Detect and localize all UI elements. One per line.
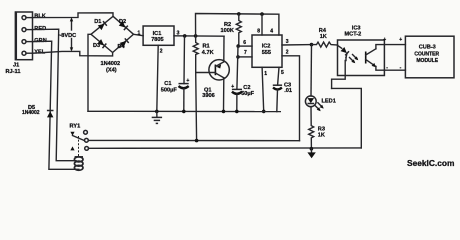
wire 555 pin 6 (238, 45, 252, 47)
svg-text:CUB-3: CUB-3 (419, 45, 436, 51)
capacitor C1 500uF (179, 36, 189, 112)
svg-text:LED1: LED1 (322, 99, 336, 105)
node 555 pin1 at rail (262, 110, 266, 114)
connector J1 RJ-11 (15, 12, 32, 60)
wire MCT-2 emitter to CUB-3 (384, 69, 405, 71)
label ~8VDC with arrows (58, 17, 76, 51)
wire +5V rail up and over to 555 pin 4 (196, 14, 279, 36)
node IC1 pin2 at rail (155, 110, 159, 114)
svg-text:COUNTER: COUNTER (414, 51, 439, 57)
svg-text:(X4): (X4) (106, 67, 117, 73)
wire 555 pin 7 (238, 56, 252, 58)
svg-text:~8VDC: ~8VDC (58, 33, 76, 39)
transistor Q1 3906 (196, 36, 230, 111)
wire 555 pin 2 down to relay wire (282, 56, 300, 141)
svg-text:+: + (383, 37, 386, 43)
LED LED1 (305, 96, 323, 111)
wire LED1 chain vertical (310, 45, 313, 96)
wire bridge plus to IC1 pin 1 (134, 34, 144, 35)
wire MCT-2 LED cathode return (332, 58, 346, 89)
svg-text:J1: J1 (13, 62, 19, 68)
svg-text:1K: 1K (318, 133, 325, 139)
svg-text:4.7K: 4.7K (202, 50, 214, 56)
svg-text:7805: 7805 (151, 37, 163, 43)
wire GRN down through D5 to coil bottom (33, 41, 79, 169)
node 555 pin7 junction (236, 55, 240, 59)
svg-text:RJ-11: RJ-11 (6, 69, 21, 75)
resistor R1 4.7K (193, 36, 198, 73)
counter module CUB-3 (405, 36, 454, 78)
wire YEL to bridge bottom (33, 51, 113, 56)
svg-text:8: 8 (257, 29, 260, 35)
svg-text:5: 5 (281, 70, 284, 76)
diode D4 (120, 38, 129, 47)
resistor R2 100K (236, 14, 241, 45)
wire RED down to relay coil (33, 29, 77, 161)
node 555 pin 8 top (260, 12, 264, 16)
node 555 pin6 junction (236, 44, 240, 48)
resistor R3 1K (309, 107, 314, 149)
ground rail (88, 110, 280, 112)
diode D1 (98, 21, 107, 30)
wire MCT-2 collector to CUB-3 (384, 44, 405, 46)
diode D3 (97, 39, 106, 48)
svg-text:D3: D3 (93, 43, 100, 49)
wire bridge minus down to ground rail (88, 34, 91, 111)
wire LED1 node to emitter ground corner (332, 88, 362, 147)
svg-text:1K: 1K (320, 34, 327, 40)
node R2 top (237, 12, 241, 16)
svg-text:1: 1 (138, 30, 141, 36)
timer IC2 555 (252, 35, 282, 67)
node base chain at relay wire (195, 139, 199, 143)
svg-text:R1: R1 (203, 44, 210, 50)
wire IC1 pin 2 down to ground rail (157, 45, 158, 111)
svg-text:1N4002: 1N4002 (22, 110, 40, 116)
node C2 bottom at rail (235, 110, 239, 114)
svg-text:2: 2 (160, 49, 163, 55)
ground symbol under IC1 pin 2 (152, 111, 162, 123)
svg-text:1: 1 (264, 71, 267, 77)
svg-text:+: + (186, 78, 189, 84)
svg-text:IC2: IC2 (262, 43, 271, 49)
svg-text:.01: .01 (284, 88, 292, 94)
node R1 top / rail corner (194, 34, 198, 38)
diode D5 1N4002 (47, 111, 54, 118)
voltage regulator IC1 7805 (143, 26, 174, 45)
optocoupler IC3 MCT-2 (338, 40, 385, 76)
wire relay lower contact ground wire (89, 147, 362, 149)
node 555 pin3 / R4 / LED1 junction (310, 43, 314, 47)
svg-text:7: 7 (244, 50, 247, 56)
svg-text:+: + (231, 84, 234, 90)
diode D2 (119, 21, 128, 30)
svg-text:1N4002: 1N4002 (101, 61, 121, 67)
svg-text:2: 2 (286, 49, 289, 55)
svg-text:D4: D4 (118, 44, 126, 50)
svg-text:D2: D2 (119, 19, 126, 25)
wire 555 pin 3 to R4 node (282, 44, 312, 46)
svg-text:555: 555 (262, 50, 271, 56)
svg-text:3: 3 (286, 39, 289, 45)
wire R1/base node down to relay contact wire (195, 73, 198, 141)
svg-text:50µF: 50µF (241, 91, 254, 97)
svg-text:4: 4 (270, 29, 273, 35)
wire 555 pin 8 (261, 14, 263, 35)
wire relay common contact to 555 pin 2 (88, 139, 299, 141)
node LED chain at ground wire (310, 147, 314, 151)
wire +5V from IC1 pin 3 to Q1 emitter (174, 35, 224, 37)
resistor R4 1K (312, 42, 338, 47)
capacitor C3 .01 (273, 67, 282, 111)
svg-text:MODULE: MODULE (416, 58, 438, 64)
wire 555 pin 1 to ground rail (262, 67, 264, 111)
node C1 top (183, 34, 187, 38)
svg-text:BLK: BLK (34, 14, 46, 20)
svg-text:3906: 3906 (202, 93, 214, 99)
bridge rectifier diamond wires (91, 16, 134, 52)
capacitor C2 50uF (232, 46, 242, 111)
node Q1 collector at rail (222, 110, 226, 114)
node C1 bottom at rail (182, 110, 186, 114)
ground symbol at LED chain (307, 149, 315, 159)
svg-text:RY1: RY1 (70, 123, 81, 129)
svg-text:+: + (399, 37, 402, 43)
svg-text:MCT-2: MCT-2 (345, 31, 362, 37)
svg-text:6: 6 (243, 40, 246, 46)
svg-text:500µF: 500µF (161, 88, 178, 94)
svg-text:SeekIC.com: SeekIC.com (407, 158, 454, 168)
svg-text:100K: 100K (221, 28, 234, 34)
relay RY1 (70, 130, 88, 156)
svg-text:C1: C1 (164, 81, 171, 87)
svg-text:D1: D1 (94, 19, 101, 25)
wire BLK to bridge top (33, 13, 114, 18)
relay coil RY1 (74, 157, 83, 171)
svg-text:R3: R3 (318, 127, 325, 133)
